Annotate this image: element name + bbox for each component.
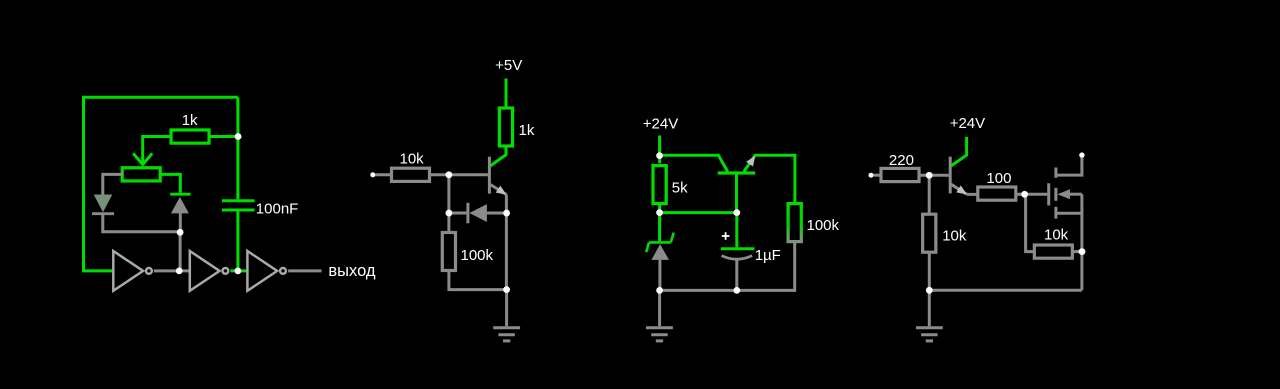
svg-text:1µF: 1µF xyxy=(755,247,781,264)
svg-text:5k: 5k xyxy=(672,180,688,197)
svg-text:+5V: +5V xyxy=(495,57,522,74)
svg-text:100: 100 xyxy=(986,170,1011,187)
svg-text:100nF: 100nF xyxy=(256,200,299,217)
svg-text:10k: 10k xyxy=(400,151,425,168)
svg-text:100k: 100k xyxy=(461,247,494,264)
svg-text:1k: 1k xyxy=(182,112,198,129)
svg-text:выход: выход xyxy=(328,262,376,280)
svg-text:10k: 10k xyxy=(1044,227,1069,244)
svg-text:1k: 1k xyxy=(519,122,535,139)
svg-text:100k: 100k xyxy=(807,217,840,234)
svg-text:+24V: +24V xyxy=(643,116,678,133)
svg-text:220: 220 xyxy=(889,152,914,169)
svg-text:+24V: +24V xyxy=(950,115,985,132)
svg-text:10k: 10k xyxy=(942,228,967,245)
